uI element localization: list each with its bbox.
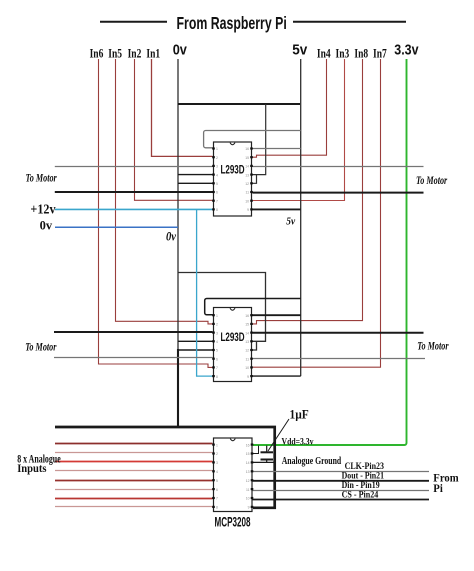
wire 0v mid branch to U2 gnd right [178,273,266,351]
wire analogue ch5 [55,480,213,482]
svg-text:4: 4 [216,470,218,474]
svg-text:1: 1 [216,314,218,318]
svg-text:15: 15 [245,323,249,327]
svg-text:+12v: +12v [30,202,56,217]
svg-text:13: 13 [246,470,250,474]
svg-text:In4: In4 [317,47,331,61]
wire In6 to U2 pin7 [99,59,213,367]
wire motor1 left gray pin3 [55,166,213,168]
wire 0v column [177,59,179,350]
svg-text:11: 11 [245,357,249,361]
svg-text:2: 2 [216,323,218,327]
svg-text:9: 9 [247,375,249,379]
ic U2 L293D pins left [212,314,215,377]
wire +12v branch to U2 pin8 [197,209,213,376]
svg-text:2: 2 [216,452,218,456]
capacitor C1 1uF [261,446,274,463]
svg-text:From Raspberry Pi: From Raspberry Pi [177,14,287,34]
wire analogue ch6 [55,489,213,491]
wire +12v to U1 pin8 [55,208,213,210]
wire motor2 right gray pin11 [253,358,426,360]
title rule left [100,21,167,23]
ic U1 L293D pins right [250,147,253,210]
ic U3 MCP3208 body [214,438,253,512]
svg-text:15: 15 [246,452,250,456]
svg-text:To Motor: To Motor [26,172,57,185]
wire analogue ch2 [55,452,213,454]
ic U1 L293D body [214,142,252,216]
ic U3 MCP3208 pins left [212,444,215,509]
svg-text:9: 9 [248,506,250,510]
svg-text:8: 8 [216,208,218,212]
wire U2 pin9 to 5v [253,375,301,377]
wire In8 to U2 pin15 [253,59,363,324]
svg-text:L293D: L293D [220,332,244,345]
svg-text:6: 6 [216,488,218,492]
svg-text:Pi: Pi [433,483,442,495]
svg-text:5: 5 [216,349,218,353]
svg-text:9: 9 [247,208,249,212]
wire Din [253,490,430,492]
svg-text:In1: In1 [146,47,160,61]
wire motor2 left gray pin6 [54,357,213,359]
svg-text:14: 14 [245,165,249,169]
svg-text:To Motor: To Motor [417,340,448,353]
wire 0v to U1 gnd pins right [253,104,266,183]
svg-text:14: 14 [245,331,249,335]
wire In2 to U1 pin7 [135,59,213,200]
svg-text:0v: 0v [173,41,187,58]
wire U2 pin16 to 5v [253,314,301,316]
svg-text:12: 12 [245,182,249,186]
svg-text:Analogue Ground: Analogue Ground [282,455,342,466]
wire U3 pin15 to 3.3v [253,446,259,454]
wire U1 pin16 to 5v [253,148,301,150]
wire 0v stubs U2 left [178,341,213,350]
ic U1 L293D pins left [212,147,215,210]
svg-text:7: 7 [216,199,218,203]
wire analogue ch8 [55,506,213,508]
svg-text:To Motor: To Motor [25,341,56,354]
svg-text:15: 15 [245,156,249,160]
svg-text:4: 4 [216,340,218,344]
wire motor1 right gray pin14 [253,166,424,168]
wire In1 to U1 pin2 [152,59,213,156]
svg-text:4: 4 [216,173,218,177]
svg-text:3: 3 [216,461,218,465]
wire motor1 right black pin11 [253,192,424,194]
wire 0v blue from battery [55,226,178,228]
svg-text:6: 6 [216,191,218,195]
svg-text:In8: In8 [354,47,368,61]
wire analogue ch1 [55,443,213,445]
wire motor2 right black pin14 [253,332,424,334]
svg-text:11: 11 [245,191,249,195]
svg-text:Vdd=3.3v: Vdd=3.3v [282,437,315,447]
svg-text:5v: 5v [286,216,295,228]
svg-text:16: 16 [246,443,250,447]
svg-text:5: 5 [216,182,218,186]
wire motor2 left black pin3 [54,331,213,333]
svg-text:12: 12 [246,479,250,483]
svg-text:MCP3208: MCP3208 [214,516,250,531]
ic U2 L293D body [214,308,252,382]
wire 0v column lower [177,349,179,427]
svg-text:5v: 5v [292,42,307,59]
svg-text:3: 3 [216,331,218,335]
wire In5 to U2 pin2 [116,59,213,324]
svg-text:6: 6 [216,357,218,361]
wire Dout [253,480,430,482]
svg-text:L293D: L293D [220,164,244,177]
ic U1 L293D pin numbers [216,147,249,212]
wire In7 to U2 pin10 [253,59,381,367]
svg-text:16: 16 [245,314,249,318]
svg-text:14: 14 [246,461,250,465]
svg-text:In5: In5 [108,47,122,61]
svg-text:1µF: 1µF [290,407,309,422]
svg-text:2: 2 [216,156,218,160]
wire analogue ch4 [55,470,213,472]
svg-text:10: 10 [245,199,249,203]
wire 5v to U2 pin1 [205,299,301,315]
svg-text:8: 8 [216,506,218,510]
title rule right [293,21,406,23]
svg-text:16: 16 [245,147,249,151]
svg-text:10: 10 [246,497,250,501]
ic U2 L293D pins right [250,314,253,377]
svg-text:12: 12 [245,349,249,353]
wire In3 to U1 pin10 [253,59,345,201]
wire CS [253,499,430,501]
svg-text:CS - Pin24: CS - Pin24 [342,489,379,500]
svg-text:In3: In3 [336,47,350,61]
wire analogue ch3 [55,461,213,463]
wire analogue ch7 [55,498,213,500]
svg-text:11: 11 [246,488,250,492]
svg-text:10: 10 [245,366,249,370]
svg-text:8: 8 [216,375,218,379]
svg-text:In6: In6 [90,47,104,61]
svg-text:7: 7 [216,497,218,501]
svg-text:0v: 0v [40,219,53,233]
svg-text:1: 1 [216,443,218,447]
svg-text:13: 13 [245,173,249,177]
svg-text:5: 5 [216,479,218,483]
wire CLK [253,471,430,473]
wire In4 to U1 pin15 [253,59,327,157]
svg-text:In7: In7 [373,47,387,61]
svg-text:0v: 0v [166,230,177,244]
wire 5v column [300,59,302,376]
svg-text:To Motor: To Motor [416,175,447,188]
wire U3 pin14 analogue ground [253,461,275,463]
wire motor1 left black pin6 [55,191,213,193]
wire 0v top branch [178,103,300,105]
ic U3 MCP3208 pins right [251,444,254,509]
svg-text:Inputs: Inputs [17,462,47,475]
svg-text:3: 3 [216,165,218,169]
svg-text:13: 13 [245,340,249,344]
ic U3 MCP3208 pin numbers [216,443,250,509]
wire 0v stubs U1 left [178,175,213,184]
wire 3.3v green column to U3 pin16 [253,59,407,445]
svg-text:3.3v: 3.3v [394,42,419,58]
ic U2 L293D pin numbers [216,314,249,379]
svg-text:1: 1 [216,147,218,151]
wire U1 pin9 to 5v [253,208,301,210]
wire ground bus [55,427,275,508]
label 1uF pointer [268,419,289,451]
wire 5v to U1 pin1 [204,131,301,148]
svg-text:In2: In2 [128,47,142,61]
svg-text:7: 7 [216,366,218,370]
